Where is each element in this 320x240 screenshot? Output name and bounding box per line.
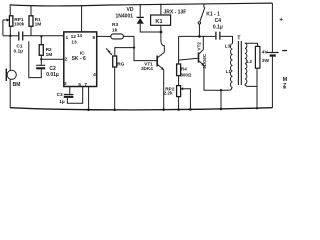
resistor R3 xyxy=(111,34,124,39)
svg-text:4: 4 xyxy=(93,72,96,78)
svg-text:100k: 100k xyxy=(14,21,25,26)
VT1 emitter diagonal xyxy=(158,65,164,70)
svg-text:L2: L2 xyxy=(247,59,253,64)
svg-text:3W: 3W xyxy=(262,58,270,64)
photoresistor RG xyxy=(113,56,117,67)
transformer core xyxy=(238,41,241,85)
svg-text:RG: RG xyxy=(117,62,124,68)
wire L2 top to lamp xyxy=(245,43,258,46)
node RG ground dot xyxy=(113,109,116,112)
wire K1 bottom to VT1 collector xyxy=(161,25,164,52)
svg-text:1M: 1M xyxy=(35,21,42,27)
wire RP2 bottom lead xyxy=(178,97,180,110)
wire C2 bottom U link xyxy=(29,41,42,77)
wire input line left segment xyxy=(3,35,18,37)
wire to IC pin 2 xyxy=(41,58,64,60)
microphone BM xyxy=(7,70,16,79)
transistor Q2 VT2 collector riser xyxy=(199,36,203,53)
wire IC pin5 stub xyxy=(69,87,71,94)
switch K1-1 blade xyxy=(200,7,205,21)
svg-text:3DG6C: 3DG6C xyxy=(202,53,207,68)
node RP2 wiper ground dot xyxy=(189,108,192,111)
switch K1-1 top stub xyxy=(203,4,205,8)
svg-text:BM: BM xyxy=(13,82,21,88)
potentiometer RP1 xyxy=(9,16,13,26)
svg-text:C3: C3 xyxy=(57,92,63,98)
potentiometer RP2 xyxy=(177,86,181,97)
microphone BM top lead xyxy=(9,36,11,70)
svg-text:+: + xyxy=(279,17,283,24)
wire R2 bottom lead xyxy=(40,55,42,59)
svg-text:0.1µ: 0.1µ xyxy=(14,48,24,54)
svg-text:9: 9 xyxy=(92,35,95,41)
wire R4 top lead xyxy=(178,36,180,64)
node RP1/mic junction dot xyxy=(9,35,11,37)
wire left drop rail to RP1 xyxy=(9,4,11,16)
svg-text:1: 1 xyxy=(66,35,69,41)
wire top supply rail xyxy=(10,3,272,6)
svg-text:7: 7 xyxy=(84,82,87,88)
VT2 emitter arrowhead xyxy=(201,63,204,66)
wire C3 bottom U link xyxy=(67,87,82,104)
RP2 wiper arrowhead xyxy=(180,87,183,90)
svg-text:3: 3 xyxy=(64,81,67,87)
resistor R1 xyxy=(29,16,33,26)
switch K1-1 contact xyxy=(198,22,200,24)
node switch dot xyxy=(198,35,201,38)
VT2 emitter diagonal xyxy=(199,61,204,65)
resistor R2 xyxy=(39,45,43,56)
svg-text:K1 - 1: K1 - 1 xyxy=(206,11,220,17)
wire VT1 emitter to ground xyxy=(163,70,165,110)
node VT1 emitter ground dot xyxy=(162,108,165,111)
node emitter ground dot xyxy=(220,108,223,111)
wire RG branch xyxy=(115,48,134,56)
RG light arrows xyxy=(106,48,112,54)
RP1 wiper arrowhead xyxy=(7,18,10,21)
svg-text:SK - 6: SK - 6 xyxy=(72,56,86,62)
wire VD bottom to K1 node xyxy=(140,24,161,32)
wire RP2 wiper to ground xyxy=(183,89,191,110)
capacitor C3 xyxy=(64,93,74,95)
wire R3 to corner down to VT1 base xyxy=(123,36,156,60)
wire IC supply lead xyxy=(81,5,83,32)
node pin7 ground dot xyxy=(87,108,90,111)
capacitor C4 xyxy=(216,32,220,40)
wire RG ground lead xyxy=(114,67,116,110)
node RP2 ground dot xyxy=(177,108,180,111)
svg-text:3DK4: 3DK4 xyxy=(141,66,153,71)
microphone BM bottom lead xyxy=(9,79,11,108)
svg-text:C2: C2 xyxy=(49,66,56,72)
wire lamp bottom to ground xyxy=(256,68,258,108)
svg-text:1M: 1M xyxy=(46,52,53,58)
svg-text:12: 12 xyxy=(71,34,77,40)
wire C2 top lead xyxy=(40,59,42,65)
transistor Q1 VT1 base bar xyxy=(156,56,158,67)
wire C4 to transformer corner xyxy=(221,36,233,43)
wire input line right segment xyxy=(23,35,64,37)
VT2 base wire xyxy=(179,58,198,60)
label minus xyxy=(282,50,287,51)
capacitor C2 xyxy=(36,64,45,66)
svg-text:K1: K1 xyxy=(155,19,162,25)
svg-text:14: 14 xyxy=(77,33,83,38)
wire R1 top lead xyxy=(30,5,32,16)
transformer T primary winding L1 xyxy=(231,44,233,88)
node lamp ground dot xyxy=(256,107,258,109)
wire R1 bottom lead xyxy=(30,26,32,36)
svg-text:JRX - 13F: JRX - 13F xyxy=(164,10,187,16)
svg-text:L1: L1 xyxy=(226,69,232,74)
capacitor C1 xyxy=(19,32,23,41)
node RG branch dot xyxy=(133,46,135,48)
svg-text:T: T xyxy=(237,36,241,42)
node VD/K1 junction dot xyxy=(160,31,163,34)
battery GB negative lead xyxy=(271,57,273,108)
diode VD 1N4001 xyxy=(137,16,144,18)
svg-text:C4: C4 xyxy=(215,18,222,24)
svg-text:1µ: 1µ xyxy=(59,99,65,105)
wire IC pin9 to R3 xyxy=(97,35,111,37)
svg-text:VT2: VT2 xyxy=(197,42,202,51)
wire switch to node xyxy=(198,24,200,36)
battery GB plates xyxy=(267,52,279,54)
svg-text:0.01µ: 0.01µ xyxy=(46,72,59,78)
lamp H 4V 3W xyxy=(255,46,260,68)
svg-text:5: 5 xyxy=(78,82,81,88)
VT1 collector diagonal xyxy=(158,52,164,57)
wire RP1 wiper xyxy=(3,20,7,36)
svg-text:R3: R3 xyxy=(112,22,118,28)
svg-text:13: 13 xyxy=(71,40,77,46)
wire R2 top lead xyxy=(40,36,42,45)
wire collector node line xyxy=(179,35,216,37)
battery GB positive lead xyxy=(271,3,273,52)
wire emitter line ground drop xyxy=(220,90,222,109)
relay K1 xyxy=(151,15,171,25)
node emitter line dot xyxy=(220,89,222,91)
resistor R4 xyxy=(177,64,181,76)
svg-text:1N4001: 1N4001 xyxy=(116,13,134,19)
wire bottom ground rail xyxy=(10,108,272,110)
wire R4 to RP2 xyxy=(178,76,180,86)
svg-text:L3: L3 xyxy=(225,43,231,48)
wire IC pin7 ground stub xyxy=(88,87,90,110)
wire RP1 bottom lead xyxy=(9,26,11,36)
node R2 top dot xyxy=(40,35,42,37)
VT1 emitter arrowhead xyxy=(161,67,164,70)
VT2 base bar xyxy=(198,52,200,62)
transformer secondary winding L2 xyxy=(245,43,247,84)
svg-text:2.2k: 2.2k xyxy=(164,91,173,96)
svg-text:VD: VD xyxy=(127,7,134,13)
svg-text:1k: 1k xyxy=(112,27,118,33)
wire L2 bottom hook xyxy=(245,84,257,86)
svg-text:2: 2 xyxy=(65,56,68,62)
svg-text:R4: R4 xyxy=(181,67,187,72)
wire VT2 emitter down and right to transformer xyxy=(204,65,232,90)
diode VD top lead xyxy=(139,4,141,17)
svg-text:0.1µ: 0.1µ xyxy=(213,24,223,30)
wire K1 top lead xyxy=(160,4,162,15)
op-amp U1 IC SK-6 box xyxy=(64,32,97,87)
node R2/C2/pin2 junction dot xyxy=(40,58,42,60)
svg-text:800Ω: 800Ω xyxy=(181,72,192,77)
